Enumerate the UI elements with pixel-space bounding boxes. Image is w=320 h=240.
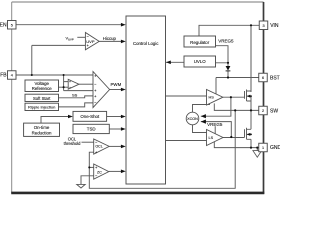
svg-text:LS: LS: [209, 136, 214, 140]
svg-text:Reference: Reference: [32, 86, 52, 91]
svg-text:BST: BST: [270, 75, 280, 81]
svg-text:Reduction: Reduction: [32, 130, 52, 135]
svg-text:OCL: OCL: [95, 145, 102, 149]
svg-text:VREG5: VREG5: [207, 122, 223, 127]
svg-text:SS: SS: [72, 93, 78, 98]
svg-text:Control Logic: Control Logic: [133, 41, 159, 46]
svg-text:TSD: TSD: [87, 127, 96, 132]
svg-text:4: 4: [11, 74, 13, 78]
svg-text:Hiccup: Hiccup: [103, 36, 117, 41]
svg-text:1: 1: [262, 146, 264, 150]
svg-text:One-Shot: One-Shot: [80, 114, 100, 119]
svg-text:VIN: VIN: [270, 23, 279, 29]
svg-text:EN: EN: [0, 23, 7, 29]
svg-text:FB: FB: [0, 73, 7, 79]
svg-text:Regulator: Regulator: [190, 40, 210, 45]
svg-text:GND: GND: [270, 145, 280, 151]
svg-text:Soft Start: Soft Start: [33, 96, 51, 101]
svg-text:3: 3: [262, 24, 264, 28]
svg-text:6: 6: [262, 76, 264, 80]
svg-text:threshold: threshold: [64, 141, 82, 146]
svg-text:On-time: On-time: [34, 125, 50, 130]
svg-text:Ripple Injection: Ripple Injection: [28, 104, 55, 109]
svg-text:5: 5: [11, 23, 13, 27]
svg-text:ZC: ZC: [97, 170, 102, 174]
svg-text:VREG5: VREG5: [218, 39, 234, 44]
svg-text:XCON: XCON: [187, 117, 198, 121]
svg-text:HS: HS: [209, 96, 215, 100]
svg-text:UVP: UVP: [86, 39, 95, 44]
svg-text:2: 2: [262, 109, 264, 113]
svg-text:PWM: PWM: [111, 82, 122, 87]
svg-text:UVLO: UVLO: [194, 59, 207, 64]
svg-text:SW: SW: [270, 108, 278, 114]
